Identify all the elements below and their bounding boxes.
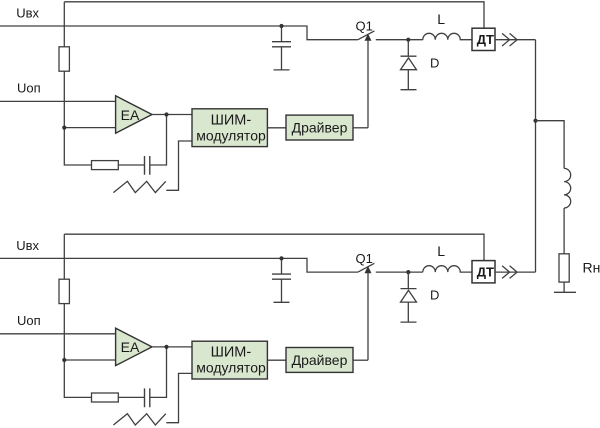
svg-text:Rн: Rн bbox=[583, 259, 600, 275]
